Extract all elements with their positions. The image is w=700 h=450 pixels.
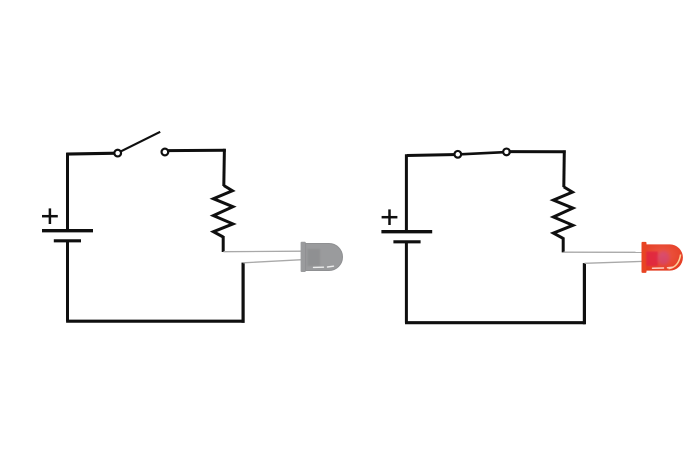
switch S2 blade (closed) — [458, 152, 507, 154]
battery BT2 negative plate — [393, 240, 420, 243]
wire: bottom return (left circuit) — [66, 320, 244, 323]
battery BT2 positive plate — [381, 230, 432, 233]
wire: top-left vertical (right circuit) — [405, 154, 408, 230]
wire: switch to resistor (top-right horizontal, left circuit) — [167, 149, 226, 152]
wire: resistor bottom to LED anode lead (right circuit) — [562, 237, 565, 252]
LED D2 cathode lead — [585, 261, 643, 263]
LED D2 dome highlight arc — [669, 255, 681, 269]
battery BT1 plus label — [42, 208, 58, 224]
wire: corner down to resistor top (right circuit) — [562, 150, 566, 187]
LED D2 internal chip — [646, 252, 658, 267]
switch S1 right contact — [162, 149, 169, 156]
battery BT2 plus label — [382, 209, 398, 225]
wire: battery positive to switch (top-left horizontal) — [66, 152, 117, 156]
battery BT1 positive plate — [42, 229, 93, 232]
switch S1 lever (open) — [119, 132, 160, 153]
wire: battery negative down (right circuit) — [405, 242, 408, 323]
wire: bottom return (right circuit) — [405, 321, 585, 324]
LED D1 anode lead — [224, 250, 303, 253]
resistor R2 — [553, 187, 573, 239]
LED D2 glow spot — [658, 251, 670, 265]
LED D2 (red / lit) flange — [642, 242, 647, 273]
switch S2 right contact — [503, 149, 510, 156]
battery BT1 negative plate — [54, 239, 81, 242]
wire: corner down to resistor top (left circuit) — [222, 149, 226, 186]
LED D2 anode lead — [564, 251, 644, 253]
wire: battery negative down — [66, 241, 69, 321]
LED D1 (gray / off) flange — [301, 242, 306, 272]
switch S1 left contact — [114, 150, 121, 157]
wire: LED cathode riser (left circuit) — [242, 263, 245, 323]
LED D1 cathode lead — [243, 260, 302, 263]
LED D1 (gray / off) body — [306, 244, 343, 271]
wire: top-left vertical (battery + up to switch level) — [66, 153, 69, 229]
wire: switch to resistor (top-right horizontal, right circuit) — [509, 150, 566, 153]
wire: battery positive to switch (top-left horizontal, right circuit) — [407, 155, 458, 156]
LED D1 internal chip — [308, 249, 321, 266]
resistor R1 — [213, 186, 233, 238]
LED D2 (red / lit) body — [646, 244, 683, 270]
wire: resistor bottom to LED anode lead (left circuit) — [222, 236, 225, 252]
wire: LED cathode riser (right circuit) — [583, 263, 586, 324]
LED D2 highlight dashes — [653, 267, 673, 268]
LED D1 highlight dashes — [314, 266, 334, 267]
switch S2 left contact — [454, 151, 461, 158]
